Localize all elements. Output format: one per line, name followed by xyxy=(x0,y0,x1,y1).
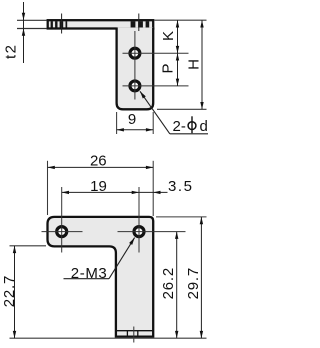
svg-text:H: H xyxy=(186,59,203,70)
dimension H: dimension line and arrows xyxy=(201,20,203,109)
bracket outline front view xyxy=(48,217,154,337)
top extension line (for K and H) xyxy=(155,19,207,21)
dimension K/P: dimension line xyxy=(177,20,179,86)
bottom end centerline xyxy=(133,327,135,343)
dimension 9: dimension line and arrows xyxy=(117,129,154,131)
dimension 26.2: dimension line and arrows xyxy=(176,232,178,339)
leader 2-M3 xyxy=(64,278,110,280)
shared bottom extension line xyxy=(10,337,207,339)
bracket top flange (edge view, thickness t2) xyxy=(48,20,154,28)
horizontal centerline hole 2 (extended) xyxy=(123,85,189,87)
hole A (M3) xyxy=(57,227,67,237)
svg-text:t2: t2 xyxy=(2,44,19,60)
centerline hole B vertical (extension for 19/3.5) xyxy=(138,187,140,253)
dimension 22.7: extension line top xyxy=(10,245,47,247)
centerline of right edge-view hole xyxy=(138,14,140,32)
svg-text:26.2: 26.2 xyxy=(160,267,177,299)
svg-text:3.5: 3.5 xyxy=(168,178,194,195)
svg-text:26: 26 xyxy=(90,153,107,170)
dimension 29.7: dimension line and arrows xyxy=(200,217,202,338)
K arrows xyxy=(176,20,179,27)
centerline hole A horizontal xyxy=(42,231,83,233)
upper hole phi-d xyxy=(130,48,140,58)
leader 2-phi-d xyxy=(140,91,170,134)
dimension 3.5: dimension line, tail and arrows xyxy=(139,191,168,193)
svg-text:K: K xyxy=(160,31,177,41)
dimension 22.7: dimension line and arrows xyxy=(14,246,16,338)
left hole edge-view lines in top flange xyxy=(51,21,68,27)
vertical centerline through plate holes xyxy=(134,31,136,100)
P arrows xyxy=(176,53,179,60)
dimension 9: extension lines xyxy=(117,112,154,134)
centerline hole A vertical (extension for 19) xyxy=(61,187,63,253)
svg-text:P: P xyxy=(159,63,176,73)
dimension t2: dimension line and arrows xyxy=(23,2,25,63)
bottom end hidden hole: inner line xyxy=(116,330,153,332)
dimension 29.7: extension line top xyxy=(156,216,207,218)
svg-text:9: 9 xyxy=(128,111,136,128)
bottom extension line (for H) xyxy=(157,108,207,110)
dimension 19: dimension line and arrows xyxy=(62,191,139,193)
svg-text:29.7: 29.7 xyxy=(185,267,202,299)
horizontal centerline hole 1 (extended for K/P dims) xyxy=(123,52,189,54)
svg-text:22.7: 22.7 xyxy=(1,275,18,307)
svg-text:19: 19 xyxy=(90,178,107,195)
centerline of left edge-view hole xyxy=(61,14,63,34)
bottom end hidden hole: wall dashes xyxy=(126,331,128,337)
svg-text:d: d xyxy=(200,118,208,135)
dimension 26: extension lines xyxy=(48,161,154,216)
svg-text:2-M3: 2-M3 xyxy=(71,265,108,282)
lower hole phi-d xyxy=(130,81,140,91)
hole B (M3) xyxy=(134,227,144,237)
bracket vertical plate (face view) xyxy=(117,27,154,109)
dimension t2: extension lines xyxy=(17,20,47,28)
centerline hole B horizontal (extension for 26.2) xyxy=(118,231,186,233)
dimension 26: dimension line and arrows xyxy=(48,166,154,168)
svg-text:2-: 2- xyxy=(173,118,186,135)
right hole edge-view lines in top flange xyxy=(131,21,150,27)
